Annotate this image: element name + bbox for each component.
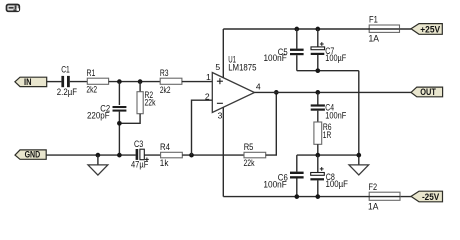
wire R2 bottom jog [119,114,140,124]
svg-text:5: 5 [215,62,220,72]
wire C5/C7 bottoms [297,70,359,72]
node bottom C6 [294,194,299,199]
svg-text:1: 1 [206,72,211,82]
node top rail C7 [315,27,320,32]
wire pin3 [222,108,224,197]
svg-text:1R: 1R [323,130,332,140]
wire bottom rail [223,196,411,198]
svg-text:100µF: 100µF [325,53,346,63]
wire C3 to R4 [144,154,160,156]
svg-text:F1: F1 [369,15,378,25]
resistor R6 [314,122,332,144]
svg-text:R3: R3 [160,68,169,78]
op-amp U1 [212,55,261,121]
svg-text:220pF: 220pF [87,111,110,121]
svg-text:100nF: 100nF [325,110,346,120]
svg-text:1k: 1k [160,158,169,168]
wire top rail [223,28,411,30]
wire R2 top stub [139,82,141,92]
svg-text:2.2µF: 2.2µF [57,87,77,97]
svg-text:R1: R1 [87,68,96,78]
svg-text:F2: F2 [369,182,378,192]
svg-text:-25V: -25V [422,192,440,202]
wire R1 to R3 [109,81,161,83]
svg-text:1A: 1A [368,202,379,212]
node gnd junction 2 (C2 column) [117,153,122,158]
svg-text:LM1875: LM1875 [228,63,256,73]
connector IN [15,77,47,87]
wire right ground column [358,71,360,165]
capacitor C6 [263,155,303,197]
svg-text:4: 4 [256,82,261,92]
resistor R1 [86,68,108,95]
svg-text:R4: R4 [160,142,170,152]
svg-text:C1: C1 [61,65,70,75]
svg-text:1A: 1A [369,34,380,44]
badge logo top-left [7,5,20,12]
svg-text:2k2: 2k2 [86,85,97,95]
svg-text:47µF: 47µF [131,160,149,170]
capacitor C5 [264,29,304,71]
node feedback junction [189,153,194,158]
svg-text:GND: GND [25,150,41,160]
capacitor C8 [310,155,348,197]
svg-text:2: 2 [205,91,210,101]
fuse F2 [368,182,400,212]
wire R4 to R5 [182,154,244,156]
node input junction 2 [138,79,143,84]
wire IN to C1 [47,81,62,83]
svg-text:100nF: 100nF [263,180,287,190]
node C7 bottom [315,68,320,73]
resistor R5 [244,142,266,168]
capacitor C4 [311,92,347,122]
capacitor C1 [57,65,77,97]
node R2/C2 junction [117,121,122,126]
svg-text:R5: R5 [244,142,254,152]
ground symbol left [88,155,108,175]
fuse F1 [369,15,400,44]
svg-text:OUT: OUT [420,87,436,97]
wire output row [255,91,412,93]
connector GND [15,150,46,160]
connector OUT [411,87,443,97]
node bottom C8 [315,194,320,199]
wire C2 column lower [118,112,120,156]
wire R6 bottom [317,144,319,155]
wire R3 to op-amp pin1 [182,81,213,83]
node R6/C8 [315,153,320,158]
ground symbol right [349,165,369,175]
svg-text:2k2: 2k2 [160,85,171,95]
node ground column [356,153,361,158]
wire R5 to feedback column [266,92,277,155]
svg-text:+25V: +25V [420,25,441,35]
supply +25V [411,24,442,35]
resistor R3 [160,68,182,95]
wire GND row [46,154,135,156]
svg-text:100µF: 100µF [326,179,349,189]
resistor R2 [137,90,156,114]
node gnd junction 1 [96,153,101,158]
svg-text:3: 3 [218,110,223,120]
wire pin5 [222,29,224,78]
svg-text:C3: C3 [134,139,143,149]
svg-text:100nF: 100nF [264,53,287,63]
svg-text:IN: IN [24,77,32,87]
svg-text:22k: 22k [145,98,156,108]
svg-text:22k: 22k [244,158,255,168]
node top rail C5 [294,27,299,32]
capacitor C2 [87,104,126,121]
resistor R4 [160,142,183,168]
node output/feedback [274,90,279,95]
node input junction 1 [117,79,122,84]
capacitor C7 [311,29,347,71]
wire pin2 [192,100,213,155]
capacitor C3 [131,139,149,170]
supply -25V [411,191,443,202]
node out / zobel [315,90,320,95]
wire C2 column upper [118,82,120,105]
wire C6/C8 top row [297,154,359,156]
wire C1 to R1 [70,81,88,83]
